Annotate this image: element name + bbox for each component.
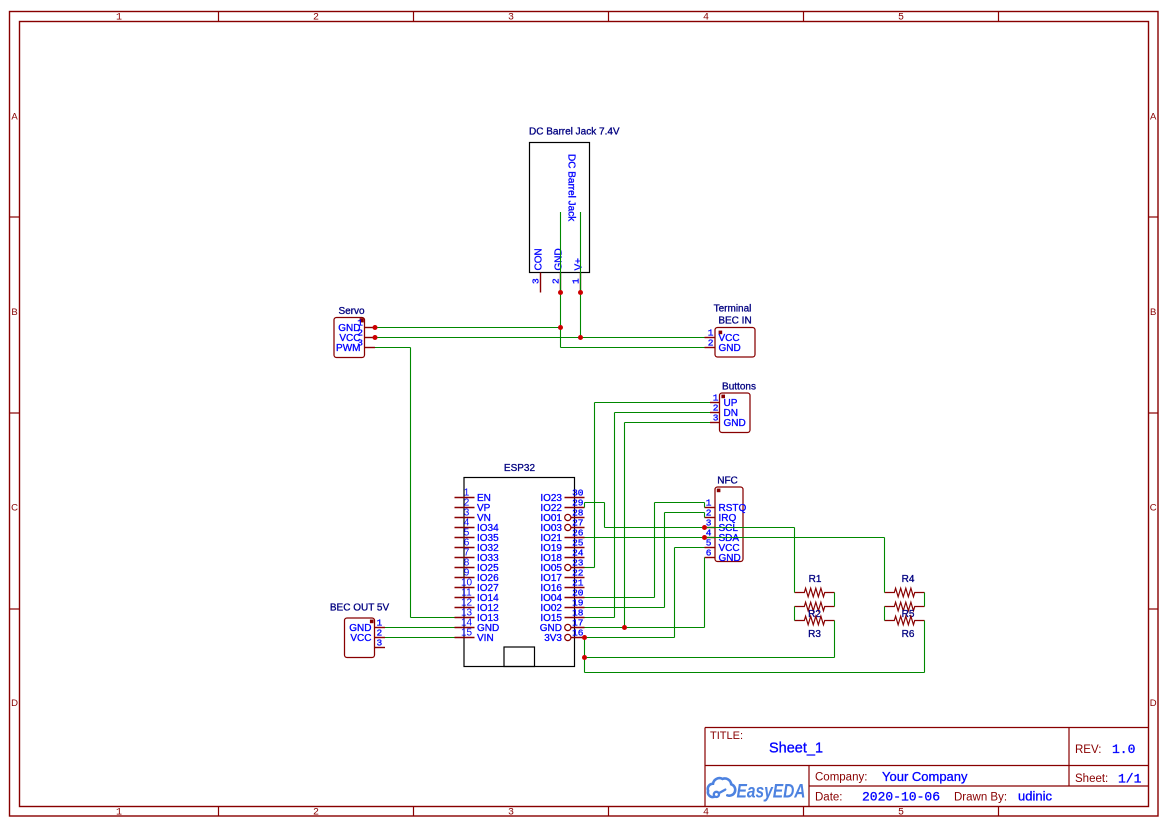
junction at DC jack pin1 end <box>578 290 583 295</box>
svg-text:TITLE:: TITLE: <box>710 730 743 742</box>
junction 3V3 branch <box>582 655 587 660</box>
svg-text:Terminal: Terminal <box>714 304 752 315</box>
wire VCC horizontal Servo to BEC IN <box>375 337 705 339</box>
svg-text:BEC IN: BEC IN <box>718 316 751 327</box>
ESP32 pin 21 IO16 <box>540 578 584 595</box>
wire RSTQ vertical <box>654 503 656 598</box>
wire RSTQ horizontal <box>655 502 705 504</box>
svg-text:3: 3 <box>508 13 514 24</box>
wire R4-R5 right link <box>924 593 926 607</box>
resistor R5 <box>885 602 925 620</box>
connector Terminal BEC IN <box>705 304 756 358</box>
wire GND horizontal to BEC IN pin2 <box>561 347 705 349</box>
svg-text:NFC: NFC <box>717 476 738 487</box>
ESP32 pin 9 IO26 <box>455 568 500 585</box>
wire 3V3 horizontal to R3 <box>585 657 835 659</box>
svg-text:1.0: 1.0 <box>1112 742 1135 757</box>
module NFC <box>705 476 747 565</box>
svg-text:EasyEDA: EasyEDA <box>737 781 806 803</box>
svg-text:PWM: PWM <box>336 343 360 354</box>
wire SCL horizontal jog <box>585 502 605 504</box>
svg-text:R4: R4 <box>902 574 915 585</box>
wire R2-R3 left link <box>794 607 796 621</box>
ESP32 pin 13 IO13 <box>455 608 500 625</box>
svg-text:Date:: Date: <box>815 792 843 804</box>
ESP32 pin 28 IO01 <box>540 508 584 525</box>
junction at DC jack pin2 end <box>558 290 563 295</box>
svg-text:DC Barrel Jack: DC Barrel Jack <box>566 154 577 222</box>
svg-text:REV:: REV: <box>1075 744 1101 756</box>
junction at Servo pin2 <box>373 335 378 340</box>
svg-text:R5: R5 <box>902 609 915 620</box>
svg-text:3: 3 <box>508 808 514 819</box>
wire UP vertical <box>594 403 596 568</box>
wire UP to ESP32 IO05 <box>585 567 595 569</box>
svg-text:D: D <box>1150 698 1157 709</box>
wire DN vertical <box>614 413 616 618</box>
svg-text:5: 5 <box>898 13 904 24</box>
wire SCL horizontal to R1 <box>605 527 795 529</box>
svg-text:V+: V+ <box>574 258 585 271</box>
ESP32 pin 3 VN <box>455 508 491 525</box>
svg-text:A: A <box>11 112 18 123</box>
svg-text:3: 3 <box>377 638 383 649</box>
svg-text:Drawn By:: Drawn By: <box>954 792 1007 804</box>
junction VCC net at x580 <box>578 335 583 340</box>
resistor R1 <box>795 574 835 597</box>
wire DN from Buttons pin2 <box>615 412 711 414</box>
svg-text:B: B <box>11 307 17 318</box>
resistor R3 <box>795 616 835 640</box>
svg-text:VIN: VIN <box>477 633 494 644</box>
ESP32 pin 17 GND <box>540 618 585 635</box>
ESP32 pin 14 GND <box>455 618 500 635</box>
wire 3V3 from NFC VCC <box>675 547 705 549</box>
svg-text:5: 5 <box>898 808 904 819</box>
svg-text:GND: GND <box>719 553 741 564</box>
ESP32 pin 10 IO27 <box>455 578 500 595</box>
junction GNDD at ESP32 GND17 row <box>622 625 627 630</box>
svg-text:3V3: 3V3 <box>544 633 562 644</box>
wire RSTQ to ESP32 IO04 <box>585 597 655 599</box>
wire SCL vertical <box>604 503 606 528</box>
ESP32 pin 22 IO17 <box>540 568 584 585</box>
ESP32 pin 24 IO18 <box>540 548 584 565</box>
svg-text:Company:: Company: <box>815 772 867 784</box>
wire DN to ESP32 IO15 <box>585 617 615 619</box>
svg-text:C: C <box>1150 503 1157 514</box>
resistor R2 <box>795 602 835 620</box>
wire UP from Buttons pin1 <box>595 402 711 404</box>
ESP32 pin 16 3V3 <box>544 628 584 645</box>
svg-text:udinic: udinic <box>1018 789 1052 804</box>
ESP32 pin 15 VIN <box>455 628 494 645</box>
svg-text:BEC OUT 5V: BEC OUT 5V <box>330 603 390 614</box>
svg-text:GND: GND <box>554 248 565 270</box>
ESP32 pin 18 IO15 <box>540 608 584 625</box>
wire GNDD ESP32 GND17 to NFC <box>585 627 705 629</box>
svg-text:Your Company: Your Company <box>882 769 968 784</box>
svg-text:3: 3 <box>531 278 542 284</box>
wire 3V3 vertical <box>674 548 676 638</box>
junction at ESP32 3V3 pin <box>582 635 587 640</box>
ESP32 pin 27 IO03 <box>540 518 584 535</box>
wire GND horizontal to Servo pin1 <box>375 327 561 329</box>
ESP32 pin 8 IO25 <box>455 558 500 575</box>
svg-text:Sheet_1: Sheet_1 <box>769 741 823 757</box>
wire IRQ vertical <box>664 513 666 608</box>
wire PWM to ESP32 IO13 <box>411 617 455 619</box>
svg-text:Servo: Servo <box>338 306 365 317</box>
svg-text:1/1: 1/1 <box>1118 772 1142 787</box>
svg-text:2: 2 <box>313 13 319 24</box>
svg-text:2020-10-06: 2020-10-06 <box>862 790 940 805</box>
junction at NFC SCL pin <box>702 525 707 530</box>
svg-text:ESP32: ESP32 <box>504 463 536 474</box>
wire GNDD vertical to NFC GND <box>704 558 706 628</box>
svg-text:A: A <box>1150 112 1157 123</box>
wire BEC OUT GND to ESP32 GND <box>385 627 455 629</box>
ESP32 pin 6 IO32 <box>455 538 500 555</box>
resistor R6 <box>885 616 925 640</box>
svg-text:1: 1 <box>116 13 122 24</box>
connector J1 DC Barrel Jack 7.4V <box>529 127 620 273</box>
svg-text:2: 2 <box>708 338 714 349</box>
wire IRQ to ESP32 IO02 <box>585 607 665 609</box>
svg-text:Sheet:: Sheet: <box>1075 773 1108 785</box>
wire IRQ jog at NFC pin2 <box>704 513 706 518</box>
svg-text:CON: CON <box>534 248 545 270</box>
svg-text:4: 4 <box>703 808 709 819</box>
module U1 ESP32 <box>464 463 575 667</box>
connector Servo <box>334 306 375 358</box>
ESP32 pin 26 IO21 <box>540 528 584 545</box>
ESP32 pin 19 IO02 <box>540 598 584 615</box>
svg-text:R1: R1 <box>809 574 822 585</box>
wire 3V3 horizontal to R6 <box>585 672 925 674</box>
pin 2 GND of DC Barrel Jack <box>551 248 565 292</box>
wire V+ vertical from DC jack pin1 <box>580 212 582 338</box>
ESP32 pin 7 IO33 <box>455 548 500 565</box>
wire SDA down to R4 <box>884 538 886 593</box>
junction at Servo pin1 <box>373 325 378 330</box>
connector BEC OUT 5V <box>330 603 390 658</box>
wire SDA horizontal IO21 to R4 <box>585 537 885 539</box>
wire BEC OUT VCC to ESP32 VIN <box>385 637 455 639</box>
wire RSTQ jog at NFC pin1 <box>704 503 706 508</box>
wire PWM from Servo pin3 <box>375 347 411 349</box>
wire GNDD vertical <box>624 423 626 628</box>
svg-text:VCC: VCC <box>350 633 371 644</box>
wire GNDD from Buttons pin3 <box>625 422 711 424</box>
ESP32 pin 11 IO14 <box>455 588 500 605</box>
wire R1-R2 right link <box>834 593 836 607</box>
svg-text:2: 2 <box>551 278 562 284</box>
svg-text:R6: R6 <box>902 629 915 640</box>
svg-text:R3: R3 <box>808 629 821 640</box>
svg-text:4: 4 <box>703 13 709 24</box>
wire R5-R6 left link <box>884 607 886 621</box>
svg-text:1: 1 <box>571 278 582 284</box>
ESP32 pin 30 IO23 <box>540 488 584 505</box>
pin 1 V+ of DC Barrel Jack <box>571 258 585 293</box>
svg-text:Buttons: Buttons <box>722 382 756 393</box>
svg-text:DC Barrel Jack 7.4V: DC Barrel Jack 7.4V <box>529 127 620 138</box>
svg-text:GND: GND <box>724 418 746 429</box>
junction at NFC SDA pin <box>702 535 707 540</box>
wire SCL jog at IO22 <box>584 503 586 508</box>
svg-text:3: 3 <box>713 413 719 424</box>
ESP32 pin 23 IO05 <box>540 558 584 575</box>
ESP32 pin 1 EN <box>455 488 491 505</box>
ESP32 pin 12 IO12 <box>455 598 500 615</box>
svg-text:2: 2 <box>313 808 319 819</box>
svg-text:15: 15 <box>461 628 473 639</box>
wire SCL down to R1 <box>794 528 796 593</box>
wire R3 right vertical <box>834 621 836 658</box>
junction GND net at x560 <box>558 325 563 330</box>
wire IRQ horizontal <box>665 512 705 514</box>
EasyEDA logo <box>708 778 806 802</box>
ESP32 pin 20 IO04 <box>540 588 584 605</box>
svg-text:C: C <box>11 503 18 514</box>
svg-text:GND: GND <box>719 343 741 354</box>
wire 3V3 to ESP32 pin16 <box>585 637 675 639</box>
svg-text:6: 6 <box>706 548 712 559</box>
connector Buttons <box>710 382 756 433</box>
title block <box>705 728 1149 807</box>
svg-text:16: 16 <box>572 628 584 639</box>
resistor R4 <box>885 574 925 597</box>
svg-text:D: D <box>11 698 18 709</box>
pin 3 CON of DC Barrel Jack <box>531 248 545 292</box>
ESP32 pin 25 IO19 <box>540 538 584 555</box>
svg-text:B: B <box>1150 307 1156 318</box>
ESP32 pin 5 IO35 <box>455 528 500 545</box>
svg-text:1: 1 <box>116 808 122 819</box>
ESP32 pin 29 IO22 <box>540 498 584 515</box>
ESP32 pin 2 VP <box>455 498 491 515</box>
wire PWM vertical <box>410 348 412 618</box>
wire 3V3 vertical below ESP32 <box>584 638 586 673</box>
ESP32 pin 4 IO34 <box>455 518 500 535</box>
wire GND vertical from DC jack pin2 <box>560 212 562 348</box>
wire R6 right vertical <box>924 621 926 673</box>
